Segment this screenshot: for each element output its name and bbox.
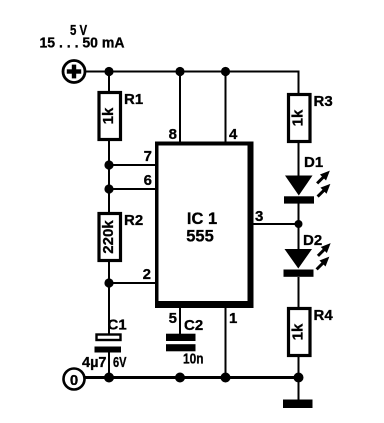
svg-text:R1: R1	[124, 91, 143, 108]
svg-text:4: 4	[229, 126, 238, 143]
svg-text:C2: C2	[184, 317, 203, 334]
svg-text:555: 555	[186, 228, 214, 246]
svg-text:7: 7	[144, 148, 152, 165]
svg-text:1k: 1k	[290, 109, 307, 126]
svg-text:1: 1	[229, 310, 237, 327]
svg-text:220k: 220k	[100, 220, 117, 254]
svg-text:10n: 10n	[183, 351, 204, 368]
svg-text:5: 5	[169, 310, 177, 327]
svg-text:0: 0	[70, 372, 78, 389]
svg-text:1k: 1k	[290, 323, 307, 340]
svg-text:D1: D1	[304, 154, 323, 171]
svg-text:6V: 6V	[113, 354, 127, 371]
svg-text:15 . . . 50 mA: 15 . . . 50 mA	[40, 36, 126, 52]
svg-text:2: 2	[143, 266, 151, 283]
svg-text:1k: 1k	[100, 107, 117, 124]
svg-text:R3: R3	[314, 93, 333, 110]
svg-text:4µ7: 4µ7	[82, 354, 107, 371]
svg-text:3: 3	[255, 208, 263, 225]
svg-text:8: 8	[169, 126, 177, 143]
svg-text:6: 6	[144, 172, 152, 189]
svg-text:IC 1: IC 1	[187, 210, 217, 228]
svg-text:D2: D2	[303, 232, 322, 249]
svg-text:R2: R2	[124, 212, 143, 229]
svg-text:C1: C1	[108, 317, 127, 334]
svg-text:R4: R4	[314, 307, 334, 324]
